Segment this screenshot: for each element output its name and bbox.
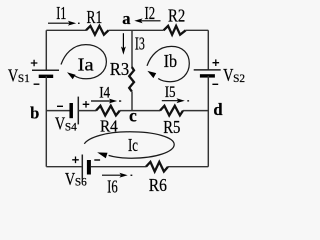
minus sign VS6 [94, 159, 100, 161]
current arrow I2 [134, 18, 160, 23]
resistor R4 [96, 106, 120, 116]
svg-text:R1: R1 [87, 7, 103, 27]
resistor R5 [160, 106, 183, 116]
voltage source VS4 [71, 97, 78, 125]
svg-text:S2: S2 [233, 73, 245, 85]
svg-text:S4: S4 [65, 121, 77, 133]
wire bottom: R6 to right corner [168, 166, 208, 168]
wire left edge upper [45, 30, 47, 70]
svg-text:c: c [129, 106, 137, 126]
svg-text:Ia: Ia [78, 55, 94, 75]
mesh current loop Ib [147, 46, 189, 81]
wire bottom: VS6 to R6 [91, 166, 146, 168]
voltage source VS6 [82, 155, 89, 180]
minus sign VS2 [212, 83, 218, 85]
wire top right segment [186, 29, 209, 31]
mesh current loop Ic [84, 132, 174, 158]
mesh current loop Ia [61, 45, 106, 80]
resistor R3 [129, 67, 134, 91]
wire top middle segment through node a [109, 29, 164, 31]
wire middle: R4 to R5 through node c [120, 110, 160, 112]
current arrow I5 [162, 98, 189, 103]
svg-text:d: d [213, 100, 222, 119]
svg-text:I4: I4 [99, 84, 110, 101]
svg-text:I3: I3 [135, 34, 145, 54]
resistor R1 [86, 26, 109, 35]
svg-text:S1: S1 [18, 73, 30, 85]
wire bottom: left corner to VS6 [46, 166, 81, 168]
svg-text:S6: S6 [75, 177, 87, 189]
plus sign VS6 [72, 157, 79, 164]
svg-text:V: V [8, 65, 18, 85]
svg-text:V: V [65, 169, 75, 189]
svg-text:R5: R5 [163, 117, 180, 137]
minus sign VS1 [34, 83, 40, 85]
current arrow I6 [102, 173, 132, 178]
voltage source VS2 [194, 70, 221, 76]
svg-text:R2: R2 [168, 5, 185, 25]
wire middle: R5 to node d [183, 110, 208, 112]
svg-text:I2: I2 [145, 3, 156, 23]
current arrow I1 [48, 21, 80, 26]
svg-text:Ib: Ib [164, 51, 178, 71]
svg-text:Ic: Ic [128, 135, 138, 155]
svg-text:R6: R6 [149, 175, 167, 195]
resistor R6 [146, 162, 168, 172]
plus sign VS4 [83, 101, 90, 108]
svg-text:b: b [30, 104, 39, 123]
svg-text:I1: I1 [56, 3, 66, 23]
svg-text:a: a [122, 9, 130, 28]
svg-text:I6: I6 [107, 176, 118, 196]
wire top left segment [46, 29, 86, 31]
current arrow I3 [121, 33, 126, 55]
wire middle: b to VS4 [46, 110, 69, 112]
plus sign VS2 [213, 59, 220, 66]
wire right edge lower [207, 76, 209, 167]
voltage source VS1 [32, 70, 59, 76]
minus sign VS4 [57, 105, 63, 107]
wire R3 to node c [131, 91, 133, 110]
svg-text:V: V [55, 113, 65, 133]
wire node a down to R3 [131, 30, 133, 67]
wire middle: VS4 to R4 [78, 110, 96, 112]
resistor R2 [164, 26, 186, 35]
wire left edge lower [45, 76, 47, 166]
current arrow I4 [91, 99, 121, 104]
plus sign VS1 [31, 60, 38, 67]
wire right edge upper [207, 30, 209, 70]
svg-text:V: V [223, 65, 233, 85]
svg-text:R3: R3 [110, 59, 129, 79]
svg-text:I5: I5 [165, 84, 176, 101]
